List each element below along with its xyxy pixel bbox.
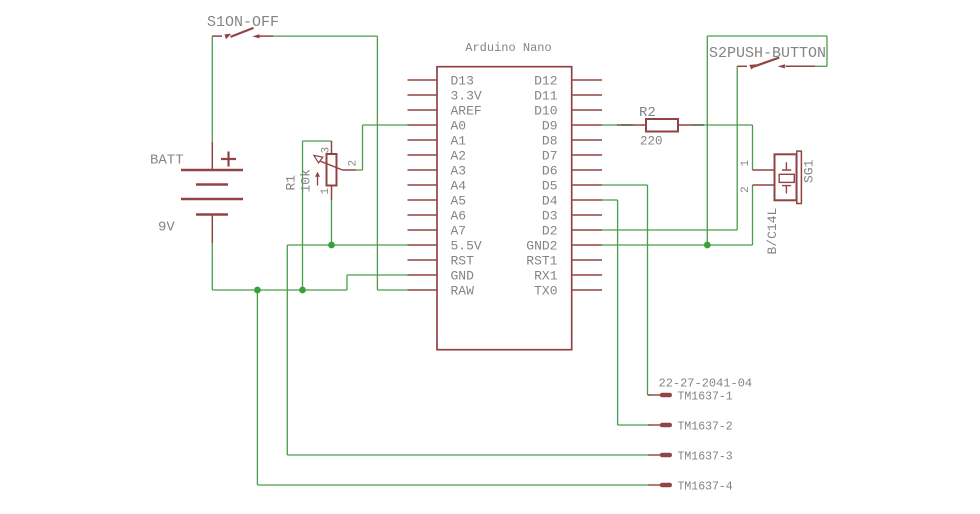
wire TM1637-4 branch vertical xyxy=(256,290,258,485)
svg-text:Arduino Nano: Arduino Nano xyxy=(465,41,551,55)
svg-text:3.3V: 3.3V xyxy=(451,88,482,103)
wire D2 horizontal xyxy=(602,229,737,231)
wire button right to pin xyxy=(815,65,827,67)
potentiometer R1 wiper arrow xyxy=(314,155,323,163)
wire S1 right horizontal xyxy=(273,35,377,37)
IC left pin stubs xyxy=(408,80,438,290)
svg-text:A3: A3 xyxy=(451,163,467,178)
svg-text:A0: A0 xyxy=(451,118,467,133)
svg-text:1: 1 xyxy=(740,160,752,167)
svg-text:RAW: RAW xyxy=(451,283,475,298)
wire GND to IC pin xyxy=(347,274,408,276)
svg-text:D4: D4 xyxy=(542,193,558,208)
battery plus sign xyxy=(221,152,236,167)
svg-text:A7: A7 xyxy=(451,223,467,238)
wire TM1637-4 horizontal xyxy=(257,484,649,486)
junction dot GND2 speaker xyxy=(704,242,711,249)
IC right pin labels xyxy=(526,73,557,298)
svg-text:TM1637-4: TM1637-4 xyxy=(678,481,733,494)
svg-text:220: 220 xyxy=(640,135,663,149)
potentiometer R1 body xyxy=(327,154,337,186)
svg-text:D8: D8 xyxy=(542,133,558,148)
IC left pin labels xyxy=(451,73,482,298)
wire pot pin3 loop top xyxy=(303,140,332,142)
svg-text:10k: 10k xyxy=(299,169,314,193)
wire R2 to speaker corner xyxy=(694,124,753,126)
wire D4 vertical to TM1637-2 xyxy=(617,200,619,425)
speaker SG1 bar xyxy=(797,151,802,203)
svg-text:TM1637-1: TM1637-1 xyxy=(678,391,733,404)
switch S1 xyxy=(212,35,273,37)
svg-text:A5: A5 xyxy=(451,193,467,208)
svg-text:3: 3 xyxy=(321,147,333,154)
wire pot pin1 down xyxy=(331,200,333,245)
switch S2 right arrow xyxy=(778,64,785,68)
svg-text:TX0: TX0 xyxy=(534,283,557,298)
IC right pin stubs xyxy=(572,80,602,290)
svg-text:A4: A4 xyxy=(451,178,467,193)
svg-text:D12: D12 xyxy=(534,73,557,88)
svg-text:RX1: RX1 xyxy=(534,268,558,283)
svg-text:D5: D5 xyxy=(542,178,558,193)
svg-text:S1ON-OFF: S1ON-OFF xyxy=(207,14,279,31)
battery BATT plates xyxy=(181,170,243,215)
switch S1 lever xyxy=(231,28,254,37)
junction dot pot pin3 GND xyxy=(299,287,306,294)
switch S2 push-button xyxy=(737,65,815,67)
svg-text:RST: RST xyxy=(451,253,475,268)
wire RAW vertical xyxy=(376,36,378,290)
wire button loop top horizontal xyxy=(707,35,827,37)
speaker SG1 piezo element xyxy=(779,174,794,182)
resistor R2 pin stubs xyxy=(617,124,694,126)
wire overlap R2 left pin xyxy=(621,124,633,126)
wire TM1637-2 horizontal xyxy=(618,424,652,426)
svg-text:AREF: AREF xyxy=(451,103,482,118)
connector TM1637-3 pad xyxy=(648,454,660,456)
svg-text:TM1637-3: TM1637-3 xyxy=(678,451,733,464)
speaker SG1 pin stubs xyxy=(753,170,775,185)
speaker SG1 body xyxy=(775,154,797,200)
svg-text:R1: R1 xyxy=(284,175,299,191)
svg-text:R2: R2 xyxy=(639,105,656,121)
svg-text:5.5V: 5.5V xyxy=(451,238,482,253)
svg-text:9V: 9V xyxy=(158,220,175,236)
svg-text:1: 1 xyxy=(320,188,332,195)
svg-text:D3: D3 xyxy=(542,208,558,223)
svg-text:D9: D9 xyxy=(542,118,558,133)
wire GND jog up xyxy=(346,275,348,290)
switch S1 right arrow xyxy=(252,34,259,38)
svg-text:GND: GND xyxy=(451,268,475,283)
svg-text:D11: D11 xyxy=(534,88,558,103)
wire D5 vertical to TM1637-1 xyxy=(647,185,649,395)
svg-text:22-27-2041-04: 22-27-2041-04 xyxy=(659,377,753,391)
op IC U1 Arduino Nano box xyxy=(437,67,572,350)
junction dot pot pin1 5.5V xyxy=(328,242,335,249)
wire 5.5V horizontal xyxy=(287,244,407,246)
wire 5.5V down vertical xyxy=(286,245,288,455)
wire GND bottom horizontal xyxy=(212,289,347,291)
wire GND2 horizontal xyxy=(602,244,753,246)
resistor R2 body xyxy=(646,119,678,132)
wire button right vertical xyxy=(826,36,828,66)
wire pot pin2 vertical xyxy=(362,125,364,170)
wire button loop left vertical xyxy=(706,36,708,245)
wire pot pin3 loop vertical xyxy=(302,141,304,290)
svg-text:D7: D7 xyxy=(542,148,558,163)
wire speaker pin1 vertical xyxy=(752,125,754,170)
wire TM1637-3 horizontal xyxy=(287,454,649,456)
svg-text:A1: A1 xyxy=(451,133,467,148)
svg-text:2: 2 xyxy=(740,186,752,193)
wire overlap R2 right pin xyxy=(693,124,704,126)
junction dot TM1637-4 branch xyxy=(254,287,261,294)
wire pot pin2 stub xyxy=(356,169,363,171)
switch S2 lever xyxy=(754,58,780,67)
wire button left vertical to D2 xyxy=(736,66,738,230)
wire battery plus to S1 xyxy=(211,36,213,142)
svg-text:BATT: BATT xyxy=(150,153,184,169)
svg-text:D6: D6 xyxy=(542,163,558,178)
connector TM1637-2 pad xyxy=(648,424,660,426)
connector TM1637-4 pad xyxy=(648,484,660,486)
svg-text:GND2: GND2 xyxy=(526,238,557,253)
potentiometer R1 wiper xyxy=(320,161,342,170)
wire D4 horizontal xyxy=(602,199,618,201)
svg-text:SG1: SG1 xyxy=(802,159,817,183)
svg-text:D13: D13 xyxy=(451,73,474,88)
switch S1 left arrow xyxy=(225,34,232,40)
svg-text:S2PUSH-BUTTON: S2PUSH-BUTTON xyxy=(709,45,826,62)
battery pin stubs xyxy=(211,142,213,243)
connector TM1637-1 pad xyxy=(648,394,660,396)
svg-text:A6: A6 xyxy=(451,208,467,223)
potentiometer R1 trim arrow xyxy=(317,175,319,186)
wire speaker pin2 vertical xyxy=(752,185,754,245)
svg-text:TM1637-2: TM1637-2 xyxy=(678,421,733,434)
svg-text:D10: D10 xyxy=(534,103,557,118)
svg-text:A2: A2 xyxy=(451,148,467,163)
wire TM1637-1 short horizontal xyxy=(648,394,653,396)
svg-text:B/C14L: B/C14L xyxy=(765,208,780,255)
wire battery minus down xyxy=(211,243,213,290)
potentiometer R1 pin stubs xyxy=(332,141,357,200)
switch S2 left arrow xyxy=(749,64,756,69)
svg-text:RST1: RST1 xyxy=(526,253,557,268)
wire A0 horizontal xyxy=(363,124,408,126)
svg-text:D2: D2 xyxy=(542,223,558,238)
wire D5 horizontal xyxy=(602,184,648,186)
wire RAW to IC pin xyxy=(377,289,407,291)
wire D9 to R2 xyxy=(602,124,618,126)
svg-text:2: 2 xyxy=(348,160,360,167)
